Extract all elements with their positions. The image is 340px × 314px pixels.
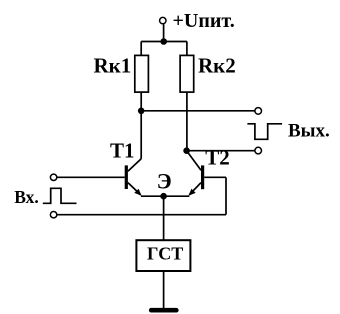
output terminal top <box>255 108 262 115</box>
node left collector <box>138 108 145 115</box>
wire output top <box>141 110 255 112</box>
transistor T2 <box>187 151 203 196</box>
svg-text:T1: T1 <box>110 139 135 163</box>
input pulse symbol <box>43 188 77 203</box>
input terminal bottom <box>50 212 56 218</box>
wire top rail <box>141 41 187 43</box>
svg-text:Вх.: Вх. <box>14 187 39 207</box>
supply terminal +Uпит. <box>160 17 166 23</box>
wire supply terminal to junction <box>163 24 165 41</box>
svg-text:Вых.: Вых. <box>288 120 330 141</box>
output terminal bottom <box>255 147 262 154</box>
svg-text:+Uпит.: +Uпит. <box>173 10 235 32</box>
wire output bottom <box>187 150 255 152</box>
input terminal top <box>50 174 56 180</box>
resistor Rк2 <box>180 55 194 92</box>
output pulse symbol <box>247 124 282 140</box>
wire Rк2 bottom to right collector node <box>186 92 188 151</box>
wire ГСТ to ground <box>163 271 165 309</box>
wire T1 base <box>57 176 125 178</box>
node supply junction <box>160 38 167 45</box>
svg-text:Rк2: Rк2 <box>198 54 236 78</box>
svg-text:T2: T2 <box>205 146 230 170</box>
resistor Rк1 <box>135 55 149 92</box>
svg-text:Э: Э <box>157 168 172 193</box>
wire emitter node to ГСТ <box>163 196 165 240</box>
node emitter Э <box>160 193 167 200</box>
wire emitter horizontal <box>141 195 189 197</box>
wire left node down to T1 collector <box>140 111 142 159</box>
ground <box>151 308 176 313</box>
wire T2 base <box>204 176 226 178</box>
wire Rк1 bottom to left collector node <box>140 92 142 111</box>
current source ГСТ <box>136 240 190 271</box>
transistor T1 <box>126 159 141 196</box>
node right collector <box>183 147 190 154</box>
wire T2 base down <box>225 177 227 214</box>
wire bottom input return <box>57 214 226 216</box>
wire rail to Rк1 top <box>140 42 142 56</box>
svg-text:ГСТ: ГСТ <box>147 243 183 263</box>
wire rail to Rк2 top <box>186 42 188 56</box>
svg-text:Rк1: Rк1 <box>94 54 132 78</box>
